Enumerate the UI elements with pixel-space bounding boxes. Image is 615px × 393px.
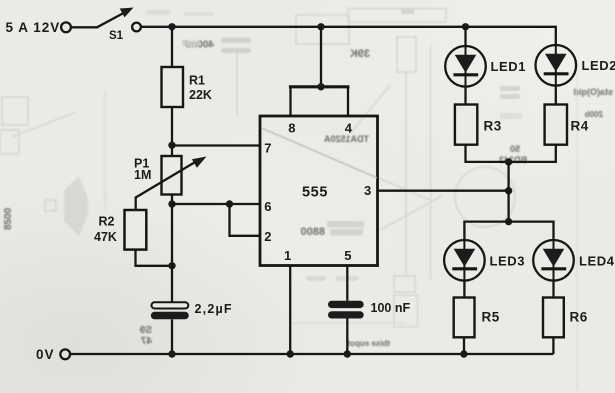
svg-text:1M: 1M	[134, 168, 151, 182]
junction LED3/LED4 bus	[505, 218, 512, 225]
resistor R2	[125, 210, 147, 250]
svg-text:3: 3	[364, 183, 371, 198]
wire C1 to ground rail	[171, 319, 173, 354]
switch terminal circle	[132, 23, 141, 32]
svg-text:5 A 12V: 5 A 12V	[6, 20, 61, 35]
wire pin 5 to C2	[346, 266, 348, 301]
svg-text:6: 6	[264, 199, 271, 214]
wire R2 to node C	[136, 250, 173, 266]
wire R5 to ground	[463, 337, 465, 354]
svg-text:LED3: LED3	[490, 253, 526, 268]
svg-text:47K: 47K	[94, 230, 117, 244]
svg-text:100 nF: 100 nF	[371, 301, 411, 315]
node A junction (R1/P1/pin7)	[168, 142, 175, 149]
svg-text:2,2µF: 2,2µF	[195, 302, 233, 316]
wire R6 to ground	[552, 337, 554, 354]
wire rail to LED1	[464, 27, 466, 46]
wire terminal to switch	[71, 26, 98, 28]
junction ground at R5	[460, 350, 467, 357]
svg-text:8: 8	[288, 120, 295, 135]
junction pin6/pin2 tee	[226, 200, 233, 207]
node C junction	[168, 262, 175, 269]
svg-text:47: 47	[140, 336, 152, 347]
capacitor C1 2.2uF	[151, 302, 189, 319]
svg-text:R6: R6	[570, 310, 588, 325]
wire bus to LED3 and LED4	[464, 222, 553, 241]
LED4	[533, 240, 574, 281]
capacitor C2 100nF	[328, 301, 364, 319]
svg-text:R2: R2	[99, 215, 115, 229]
wire LED4 to R6	[552, 281, 554, 298]
svg-text:8500: 8500	[3, 207, 14, 230]
svg-text:TDA1520A: TDA1520A	[323, 134, 369, 144]
svg-text:555: 555	[302, 185, 328, 201]
output bus vertical wire	[507, 162, 509, 222]
svg-text:LED4: LED4	[579, 253, 615, 268]
resistor R6	[543, 298, 564, 338]
svg-text:R3: R3	[484, 118, 502, 133]
svg-text:50: 50	[510, 144, 520, 154]
junction on rail at LED1	[462, 23, 469, 30]
resistor R1	[162, 67, 184, 107]
svg-text:2: 2	[264, 229, 271, 244]
wire node B to capacitor C1	[171, 204, 173, 302]
LED1	[445, 46, 486, 87]
wire node B to pin6 tee	[172, 203, 260, 205]
wire rail to bracket	[320, 27, 322, 87]
switch S1	[97, 8, 134, 28]
svg-text:4: 4	[345, 120, 353, 135]
svg-text:BD243: BD243	[499, 155, 527, 165]
svg-text:39K: 39K	[350, 48, 370, 60]
supply bracket pins 8/4	[289, 87, 350, 116]
resistor R3	[455, 105, 477, 145]
svg-text:S1: S1	[109, 30, 124, 42]
wire node A to pin 7	[172, 144, 260, 146]
svg-text:LED1: LED1	[491, 59, 527, 74]
terminal 0V	[60, 349, 70, 359]
wire P1 wiper to R2	[135, 197, 137, 211]
junction R3R4 bus	[505, 158, 512, 165]
svg-text:LED2: LED2	[582, 58, 615, 73]
LED3	[444, 240, 485, 281]
wire pin 1 to ground	[289, 266, 291, 354]
wire pin 3 output	[378, 190, 509, 192]
top supply rail wire	[141, 27, 556, 45]
wire LED2 to R4	[555, 86, 557, 105]
junction ground at pin1	[287, 350, 294, 357]
svg-text:8800: 8800	[301, 226, 325, 238]
junction ground at C2	[344, 350, 351, 357]
LED2	[536, 45, 577, 86]
ghost diagonal inside 555 (decorative)	[262, 128, 377, 178]
svg-text:sta(O)qid: sta(O)qid	[574, 87, 614, 97]
potentiometer P1	[136, 156, 207, 198]
wire rail to R1	[171, 27, 173, 67]
wire R1 to node A	[171, 107, 173, 156]
junction pin3 on output bus	[505, 187, 512, 194]
svg-text:22K: 22K	[189, 88, 212, 102]
junction ground at C1	[168, 350, 175, 357]
svg-text:R4: R4	[571, 118, 589, 133]
junction on rail at R1	[168, 23, 175, 30]
wire P1 to node B	[171, 195, 173, 205]
svg-text:5: 5	[344, 248, 351, 263]
node B junction (P1/pin6/cap)	[168, 200, 175, 207]
svg-text:tbise eupot: tbise eupot	[347, 339, 390, 348]
wire LED3 to R5	[463, 281, 465, 298]
op IC 555 U1	[260, 116, 378, 266]
resistor R5	[454, 298, 475, 338]
junction at bracket	[317, 83, 324, 90]
svg-text:R5: R5	[482, 310, 500, 325]
terminal +12V	[61, 22, 71, 32]
svg-text:7: 7	[264, 140, 271, 155]
svg-text:R1: R1	[189, 74, 205, 88]
wire C2 to ground	[346, 319, 348, 355]
junction on rail at 555 feed	[317, 23, 324, 30]
bottom ground rail wire	[71, 353, 554, 355]
wire tee to pin 2	[230, 204, 261, 236]
svg-text:0V: 0V	[36, 347, 55, 362]
resistor R4	[545, 105, 567, 145]
wire LED1 to R3	[464, 87, 466, 105]
svg-text:1: 1	[284, 248, 291, 263]
svg-text:S9: S9	[139, 325, 152, 336]
wire R3/R4 to output bus	[466, 145, 556, 162]
